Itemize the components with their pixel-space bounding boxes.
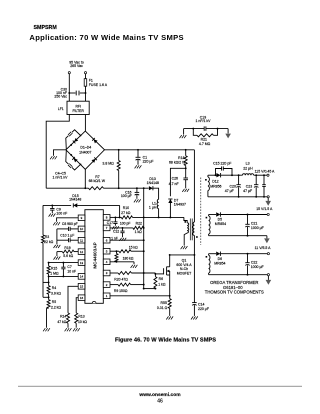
ground R19: [54, 257, 56, 260]
ground C17: [112, 226, 114, 229]
svg-text:22 kΩ: 22 kΩ: [44, 240, 54, 244]
svg-text:R55: R55: [160, 301, 166, 305]
wire D15 drop to Vcc rail: [119, 205, 121, 217]
wire drain node down to C14: [193, 255, 195, 303]
svg-text:47 kΩ: 47 kΩ: [57, 320, 66, 324]
svg-text:C8 980 pF: C8 980 pF: [62, 222, 78, 226]
svg-text:1N4007: 1N4007: [79, 151, 91, 155]
svg-text:1 kΩ: 1 kΩ: [158, 282, 166, 286]
capacitor C20 47 uF: [238, 175, 240, 185]
wire 11V rail: [209, 253, 216, 255]
bridge diode top-right: [92, 138, 97, 143]
svg-text:180 kΩ: 180 kΩ: [123, 257, 134, 261]
svg-text:FUSE 1.6 A: FUSE 1.6 A: [89, 83, 108, 87]
fuse F1 FUSE 1.6 A: [84, 79, 87, 87]
inductor L3 22 uH: [243, 174, 254, 176]
wire primary to drain node: [193, 235, 195, 255]
svg-text:R9 150Ω: R9 150Ω: [114, 289, 128, 293]
svg-text:16: 16: [80, 296, 84, 300]
node source sense: [169, 295, 171, 297]
resistor R7 68 kOhm/1 W: [89, 187, 104, 190]
pin 14: [78, 274, 85, 280]
terminal 11V+: [267, 253, 269, 255]
node C1: [137, 149, 139, 151]
wire pin9 row: [57, 218, 79, 222]
svg-text:10 kΩ: 10 kΩ: [78, 320, 87, 324]
svg-text:C26: C26: [172, 176, 178, 180]
capacitor C23 47 uF: [255, 175, 257, 185]
node Vcc bus: [143, 187, 145, 189]
svg-text:D1–D4: D1–D4: [80, 145, 91, 149]
wire left bus down: [42, 205, 44, 235]
wire filter left output: [46, 115, 69, 189]
svg-text:1 MΩ: 1 MΩ: [50, 272, 59, 276]
wire pin7 row R22 1 kOhm C12 1 nF: [110, 227, 133, 229]
wire 15V return: [209, 235, 267, 237]
svg-text:MR856: MR856: [210, 184, 221, 188]
wire bus corner: [43, 296, 49, 298]
node HV bleeder: [118, 149, 120, 151]
pin 12: [78, 249, 85, 255]
svg-text:Figure 46. 70 W Wide Mains TV: Figure 46. 70 W Wide Mains TV SMPS: [115, 337, 216, 343]
wire bridge bottom down: [84, 169, 86, 188]
bridge diode bottom-left: [72, 157, 77, 162]
svg-text:68 kΩ/1 W: 68 kΩ/1 W: [89, 179, 106, 183]
svg-text:3.9 kΩ: 3.9 kΩ: [51, 291, 61, 295]
pin 15: [78, 284, 85, 290]
ground pin9: [53, 222, 55, 225]
wire filter right output to bridge: [84, 115, 86, 132]
svg-text:C12: C12: [113, 230, 119, 234]
svg-text:R10: R10: [123, 206, 129, 210]
diode D6 MR854: [216, 252, 220, 256]
wire pin2 row R9 150 Ohm: [110, 284, 118, 286]
pin 10: [78, 226, 85, 232]
svg-text:47 μF: 47 μF: [225, 189, 234, 193]
wire D13 to L1 corner: [153, 188, 159, 199]
input terminal right: [84, 72, 86, 74]
svg-text:1000 μF: 1000 μF: [251, 226, 264, 230]
transformer secondary 15V winding: [206, 217, 208, 219]
wire pin4 row to ground: [110, 261, 134, 263]
capacitors C4-C5 1 nF/1 kV outer loop: [66, 130, 81, 150]
wire fuse to filter: [85, 86, 87, 101]
capacitor C9 100 nF: [51, 205, 53, 208]
svg-text:100 μF: 100 μF: [121, 194, 132, 198]
svg-text:R3: R3: [45, 235, 50, 239]
resistor 15 kOhm: [110, 250, 119, 252]
svg-text:C15 220 pF: C15 220 pF: [213, 161, 231, 165]
svg-text:1000 μF: 1000 μF: [251, 265, 264, 269]
svg-text:MC44603AP: MC44603AP: [93, 242, 98, 268]
svg-text:R22: R22: [136, 222, 142, 226]
wire aux rail: [110, 216, 121, 218]
capacitor C21 1000 uF: [247, 215, 249, 225]
resistor R10 27 kOhm: [121, 216, 132, 219]
pin 7: [103, 225, 110, 231]
transformer core: [189, 219, 191, 241]
svg-text:1 μH: 1 μH: [149, 206, 157, 210]
svg-text:Application: 70 W Wide Mains T: Application: 70 W Wide Mains TV SMPS: [29, 33, 183, 42]
svg-text:12: 12: [80, 250, 84, 254]
wire C19 right to ground: [227, 129, 229, 134]
resistor R3 22 kOhm: [42, 235, 45, 243]
pin 3: [103, 270, 110, 276]
diode D13 1N4148: [149, 186, 153, 190]
wire branch to D7: [170, 168, 185, 196]
pin 6: [103, 237, 110, 243]
ground aux winding: [181, 246, 183, 249]
svg-text:3.8 MΩ: 3.8 MΩ: [102, 162, 114, 166]
svg-text:R6: R6: [159, 277, 164, 281]
ground 15V return: [266, 236, 268, 239]
resistor 3.8 MOhm bleeder: [118, 150, 120, 161]
svg-text:265 Vac: 265 Vac: [70, 64, 83, 68]
svg-text:1 nF/1 kV: 1 nF/1 kV: [196, 119, 212, 123]
svg-text:46: 46: [157, 399, 163, 405]
wire L3 to terminal: [254, 174, 267, 176]
ground C9: [49, 214, 51, 217]
capacitor C26 4.7 nF: [183, 177, 188, 179]
resistor R5 2.2 kOhm: [48, 297, 50, 299]
svg-text:4.7 MΩ: 4.7 MΩ: [199, 142, 211, 146]
svg-text:1N4937: 1N4937: [174, 203, 186, 207]
pin 13: [78, 260, 85, 266]
svg-text:D5: D5: [218, 218, 223, 222]
node C9 tap: [51, 204, 53, 206]
wire pin1 row current sense: [110, 295, 170, 297]
input terminal left: [68, 72, 70, 74]
ground C10: [54, 245, 56, 248]
ground C14: [191, 316, 193, 319]
ground 11V return: [267, 276, 269, 280]
resistor R55 0.31 Ohm: [169, 296, 171, 299]
capacitor C15 220 pF snubber loop: [216, 169, 222, 176]
svg-text:R15: R15: [51, 266, 57, 270]
footer rule: [18, 385, 302, 387]
RFI filter LF1 box: [67, 101, 89, 114]
svg-text:1N4148: 1N4148: [147, 181, 159, 185]
wire 115V rail: [208, 174, 216, 176]
wire Vcc bus vertical: [143, 188, 145, 288]
pin 2: [103, 282, 110, 288]
svg-text:C7: C7: [67, 265, 71, 269]
svg-text:10: 10: [80, 227, 84, 231]
resistor R6 1 kOhm gate: [154, 273, 156, 275]
svg-text:1 nF/1 kV: 1 nF/1 kV: [53, 176, 69, 180]
wire input right to fuse: [85, 74, 87, 79]
wire pin6 row: [110, 239, 144, 241]
capacitor C17 100 pF: [114, 216, 116, 218]
svg-text:11: 11: [80, 238, 83, 242]
svg-text:15 kΩ: 15 kΩ: [129, 246, 138, 250]
terminal 11V-: [267, 274, 269, 276]
diode D5 MR854: [216, 212, 220, 216]
ground R14: [65, 328, 67, 331]
svg-text:C22: C22: [251, 261, 257, 265]
svg-text:R13: R13: [78, 315, 84, 319]
bridge diode top-left: [73, 138, 78, 143]
svg-text:FILTER: FILTER: [72, 109, 84, 113]
svg-text:100 pF: 100 pF: [120, 222, 131, 226]
terminal 15V+: [267, 213, 269, 215]
wire bus tap: [43, 281, 49, 283]
svg-text:RFI: RFI: [75, 104, 81, 108]
svg-text:100 nF: 100 nF: [56, 212, 67, 216]
terminal 115V+: [267, 174, 269, 176]
ground C16: [134, 199, 136, 202]
ground 115V return: [267, 198, 269, 201]
wire DC- rail left: [46, 187, 88, 189]
diode D12 MR856: [216, 173, 220, 177]
pin 5: [103, 248, 110, 254]
wire C19 left to ground: [183, 129, 185, 135]
svg-text:250 Vac: 250 Vac: [54, 95, 67, 99]
svg-text:68 kΩ/2 W: 68 kΩ/2 W: [169, 160, 186, 164]
svg-text:C21: C21: [251, 221, 257, 225]
wire pin13 row: [49, 262, 79, 264]
wire pin15 to R14: [68, 286, 78, 313]
svg-text:R20 47Ω: R20 47Ω: [114, 278, 128, 282]
bridge rectifier D1-D4 1N4007 diamond: [66, 131, 105, 169]
resistor R4 3.9 kOhm: [48, 282, 50, 285]
pin 16: [78, 295, 85, 301]
svg-text:15 V/1.5 A: 15 V/1.5 A: [256, 207, 273, 211]
terminal 115V-: [267, 196, 269, 198]
inductor L1 1 uH: [157, 199, 159, 208]
svg-text:15: 15: [80, 285, 84, 289]
svg-text:11 V/5.5 A: 11 V/5.5 A: [255, 246, 272, 250]
svg-text:www.onsemi.com: www.onsemi.com: [138, 392, 181, 398]
svg-text:MR854: MR854: [215, 222, 226, 226]
svg-text:R5: R5: [52, 300, 56, 304]
pin 8: [103, 215, 110, 221]
pin 11: [78, 237, 85, 243]
svg-text:220 μF: 220 μF: [198, 307, 209, 311]
svg-text:D12: D12: [212, 180, 218, 184]
ground R55: [166, 316, 168, 319]
transistor Q1 600 V/4 A N-Ch MOSFET: [167, 266, 170, 268]
resistor R14 47 kOhm: [67, 313, 70, 323]
svg-text:C14: C14: [198, 302, 204, 306]
svg-text:C23: C23: [246, 184, 252, 188]
svg-text:47 μF: 47 μF: [243, 189, 252, 193]
resistor 180 kOhm: [116, 250, 118, 252]
resistor R21 4.7 MOhm: [193, 129, 197, 136]
svg-text:220 μF: 220 μF: [143, 159, 154, 163]
wire 15V rail: [209, 214, 216, 216]
svg-text:THOMSON TV COMPONENTS: THOMSON TV COMPONENTS: [205, 290, 264, 295]
resistor R18 68 kOhm/2 W: [184, 156, 187, 166]
wire input left down: [68, 74, 70, 101]
wire DC- rail mid: [104, 187, 149, 189]
wire after D12: [221, 174, 243, 176]
node C16: [136, 187, 138, 189]
ground C1: [135, 165, 137, 168]
transformer aux winding: [184, 217, 187, 222]
capacitor C14 220 uF: [192, 302, 197, 304]
pin 1: [103, 293, 110, 299]
transformer primary winding: [193, 222, 195, 235]
capacitor C16 100 uF: [136, 188, 138, 192]
ground bridge left: [50, 156, 52, 159]
wire 115V return rail: [208, 196, 267, 198]
transformer shield dashed: [200, 178, 202, 246]
capacitor C22 1000 uF: [247, 254, 249, 263]
svg-text:C17: C17: [107, 221, 113, 225]
node R18: [185, 149, 187, 151]
op-amp U1 MC44603AP body: [85, 210, 103, 304]
svg-text:MR854: MR854: [214, 262, 225, 266]
wire pin14 row: [49, 275, 79, 277]
capacitor C1 220 uF bulk: [137, 150, 139, 158]
wire bridge left to ground: [54, 150, 66, 156]
svg-text:LF1: LF1: [58, 107, 64, 111]
ground pin4: [131, 265, 133, 268]
svg-text:27 kΩ: 27 kΩ: [121, 211, 131, 215]
svg-text:4.7 nF: 4.7 nF: [169, 182, 179, 186]
wire pin16 to R13: [76, 298, 78, 313]
svg-text:115 V/0.45 A: 115 V/0.45 A: [255, 170, 275, 174]
capacitor C7 10 nF: [62, 263, 64, 268]
ground C26: [182, 189, 184, 192]
svg-text:0.31 Ω: 0.31 Ω: [157, 306, 168, 310]
capacitor C30 100 nF 250 Vac across line: [69, 92, 75, 94]
resistor R13 10 kOhm: [75, 313, 78, 323]
svg-text:1 kΩ: 1 kΩ: [135, 230, 143, 234]
wire drain: [170, 254, 195, 256]
svg-text:R14: R14: [60, 315, 66, 319]
wire pin3 row R20 47 Ohm: [110, 272, 118, 274]
transformer secondary 115V winding: [207, 175, 209, 177]
wire 11V return: [209, 274, 268, 276]
svg-text:2.2 kΩ: 2.2 kΩ: [51, 306, 61, 310]
svg-text:SMPSRM: SMPSRM: [34, 25, 58, 31]
wire HV to primary: [193, 150, 195, 222]
ground C19 right triangle: [225, 134, 231, 139]
svg-text:22 μH: 22 μH: [243, 166, 253, 170]
pin 9: [78, 215, 85, 221]
ground R5: [43, 328, 45, 331]
ground R13: [73, 328, 75, 331]
transformer secondary 11V winding: [206, 256, 208, 258]
capacitor output small: [263, 175, 265, 185]
resistor R15 1 MOhm: [47, 266, 50, 274]
svg-text:14: 14: [80, 275, 84, 279]
node R18/C26/D7: [185, 167, 187, 169]
wire C8 to C10 link: [56, 229, 58, 240]
svg-text:D6: D6: [218, 257, 223, 261]
ground C12: [119, 238, 121, 241]
svg-text:5.6 kΩ: 5.6 kΩ: [63, 254, 73, 258]
wire HV+ rail: [105, 149, 195, 151]
svg-text:1N4148: 1N4148: [69, 198, 81, 202]
pin 4: [103, 259, 110, 265]
svg-text:10 nF: 10 nF: [67, 270, 76, 274]
bridge diode bottom-right: [92, 157, 97, 162]
ground C19 left: [180, 135, 182, 138]
svg-text:MOSFET: MOSFET: [177, 271, 192, 275]
svg-text:R4: R4: [52, 286, 56, 290]
svg-text:L3: L3: [246, 162, 250, 166]
wire bus to R6 bottom: [144, 288, 156, 290]
diode D7 1N4937: [168, 199, 172, 203]
svg-text:C20: C20: [229, 184, 235, 188]
svg-text:13: 13: [80, 261, 84, 265]
svg-text:C10 1 μF: C10 1 μF: [60, 233, 74, 237]
